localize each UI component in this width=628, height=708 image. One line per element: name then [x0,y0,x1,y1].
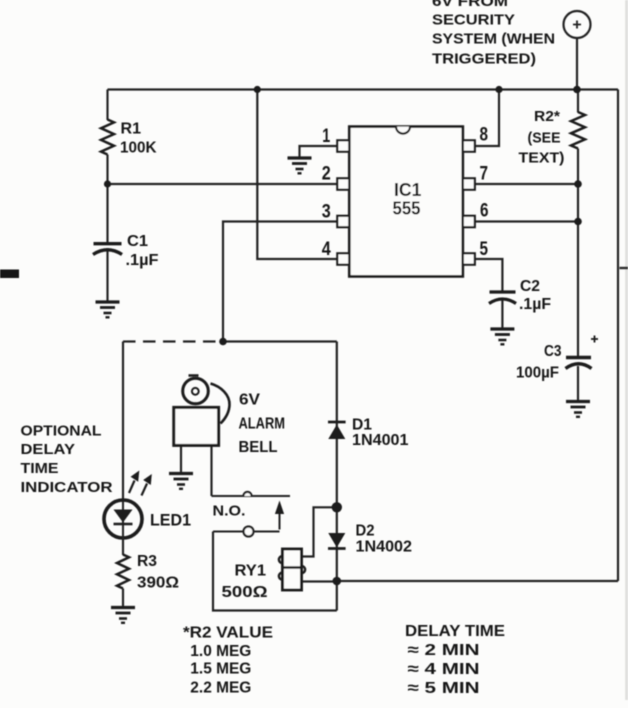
svg-text:.1µF: .1µF [126,252,159,269]
pin numbers right 8 7 6 5 [480,125,489,261]
capacitor C3 polarized [566,336,599,369]
svg-text:≈ 4 MIN: ≈ 4 MIN [408,661,480,678]
wire right rail [617,90,619,582]
node R1-C1 / pin2 [104,180,111,187]
node bottom rail junction [333,577,342,586]
label D2 1N4002 [356,523,413,556]
svg-text:5: 5 [480,239,489,260]
svg-text:N.O.: N.O. [213,503,246,520]
node top rail / pin4 [254,86,261,93]
wire D1 D2 vertical branch [336,342,338,611]
svg-text:C2: C2 [520,278,540,295]
svg-text:R3: R3 [137,553,157,570]
switch moving contact arrow [275,501,284,530]
svg-text:2.2 MEG: 2.2 MEG [190,680,251,697]
label RY1 500ohm [222,563,268,602]
svg-text:SECURITY: SECURITY [432,12,515,29]
diode D2 [328,533,346,549]
pin 5 stub [463,253,475,264]
pin 4 stub [337,253,349,264]
bell mount dash [189,374,199,377]
ground bell [169,474,193,489]
wire pin 6 to R2 rail [475,220,578,222]
svg-text:8: 8 [480,125,489,146]
pin numbers left 1 2 3 4 [322,126,331,260]
wire pin 3 branch [223,222,338,342]
label C2 .1uF [519,278,551,313]
wire pin 7 to R2 rail [475,183,578,185]
svg-text:DELAY: DELAY [21,442,76,458]
LED light arrows [129,471,152,496]
svg-text:100K: 100K [120,140,157,157]
artifact right edge stub [620,267,628,269]
label 6V ALARM BELL [239,392,286,457]
wire relay coil top L-link [302,507,337,556]
svg-text:ALARM: ALARM [239,416,286,433]
artifact right edge band [625,0,628,700]
capacitor C2 [489,292,516,304]
node R2 / pin7 [574,180,582,188]
bell striker [211,384,230,424]
svg-text:C3: C3 [544,343,562,360]
wire R1 bottom to C1 [106,155,108,246]
op IC1 555 timer body [349,127,463,277]
node top rail / R2 [573,86,581,94]
svg-text:TRIGGERED): TRIGGERED) [432,51,536,68]
svg-text:R1: R1 [121,121,142,138]
svg-text:≈ 5 MIN: ≈ 5 MIN [408,680,480,697]
wire pin 8 to top rail [475,90,499,147]
wire LED branch top [122,342,124,502]
svg-text:6V: 6V [239,392,260,409]
wire LED to R3 [122,537,124,555]
label C1 .1uF [126,233,159,269]
svg-text:OPTIONAL: OPTIONAL [21,424,102,440]
label C3 100uF [516,343,562,382]
wire relay coil bottom to rail [302,580,337,582]
svg-text:500Ω: 500Ω [222,584,268,601]
terminal 6V input [564,11,591,38]
svg-text:555: 555 [393,199,421,219]
wire R2 rail top [577,90,579,113]
svg-text:DELAY TIME: DELAY TIME [405,623,505,640]
svg-text:IC1: IC1 [394,180,422,200]
wire pin 1 to ground [300,146,338,157]
capacitor C1 [93,244,122,255]
resistor R1 [101,120,114,155]
label D1 1N4001 [352,417,409,450]
resistor R2 [571,112,585,149]
pin 7 stub [463,178,475,189]
wire C2 to ground [501,300,503,328]
ground C3 [566,402,590,417]
svg-text:LED1: LED1 [150,511,191,530]
svg-text:C1: C1 [127,233,148,250]
resistor R3 [117,555,129,589]
svg-text:D1: D1 [352,417,372,434]
note 6V FROM SECURITY SYSTEM (WHEN TRIGGERED) [432,0,555,68]
diode D1 [328,422,346,439]
wire bell right lead to switch [210,446,212,496]
svg-text:1N4002: 1N4002 [356,539,413,556]
label R1 100K [120,121,157,157]
svg-text:(SEE: (SEE [528,130,561,147]
wire C3 to ground [577,366,579,401]
wire pin 2 to R1/C1 junction [108,183,338,185]
svg-text:1N4001: 1N4001 [352,432,409,449]
svg-text:R2*: R2* [534,108,560,125]
svg-text:4: 4 [322,239,331,260]
pin 3 stub [337,216,349,227]
svg-text:D2: D2 [356,523,375,540]
node D1-D2 junction [332,502,342,512]
wire bottom rail [337,580,618,582]
pin 2 stub [337,178,349,189]
ground R3 [111,608,135,623]
switch upper fixed contact [212,492,291,496]
svg-text:*R2 VALUE: *R2 VALUE [183,624,273,641]
wire terminal to top rail [576,39,578,90]
artifact left edge mark [0,270,19,279]
LED1 [104,500,142,555]
svg-text:1: 1 [322,126,330,147]
wire bell left lead to ground [180,446,182,472]
ground C1 [96,302,120,317]
svg-text:100µF: 100µF [516,365,559,382]
pin 6 stub [463,216,475,227]
svg-text:390Ω: 390Ω [137,575,179,592]
svg-text:2: 2 [322,164,331,185]
wire C1 to ground [106,251,108,301]
svg-text:6V FROM: 6V FROM [432,0,508,10]
svg-text:RY1: RY1 [235,563,267,580]
node pin3 junction [219,338,227,346]
bell body box [174,407,219,445]
svg-text:1.5 MEG: 1.5 MEG [190,661,251,678]
label R2* (SEE TEXT) [519,108,565,167]
pin 1 stub [337,140,349,151]
pin 8 stub [463,140,475,151]
wire R2 to C3 [577,149,579,357]
svg-text:BELL: BELL [239,439,278,456]
svg-text:3: 3 [322,202,331,223]
table R2 VALUE [183,624,273,696]
wire pin 4 to top rail [257,90,337,260]
switch lower contact [213,527,280,537]
svg-text:7: 7 [480,164,489,185]
wire solid junction to D1 branch [223,340,337,342]
relay RY1 coil [279,549,305,590]
svg-text:INDICATOR: INDICATOR [21,480,114,496]
wire top supply rail [108,88,619,90]
wire dashed optional link [123,340,223,342]
svg-text:≈ 2 MIN: ≈ 2 MIN [408,642,480,659]
svg-text:1.0 MEG: 1.0 MEG [190,643,251,660]
svg-text:SYSTEM (WHEN: SYSTEM (WHEN [432,31,555,48]
bell gong [183,378,209,404]
node R2 / pin6 [574,218,582,226]
svg-text:TIME: TIME [21,461,59,477]
wire relay loop bottom [213,532,337,611]
wire R3 to ground [122,589,124,607]
svg-text:TEXT): TEXT) [519,150,565,167]
ground C2 [490,329,514,344]
label R3 390ohm [137,553,179,592]
node top rail / pin8 [495,86,502,93]
wire left rail R1 top [106,90,108,121]
svg-text:.1µF: .1µF [519,296,551,313]
ground pin 1 [288,158,312,173]
wire pin 5 to C2 [475,259,503,291]
note OPTIONAL DELAY TIME INDICATOR [21,424,114,497]
table DELAY TIME [405,623,505,697]
svg-text:6: 6 [480,201,489,222]
